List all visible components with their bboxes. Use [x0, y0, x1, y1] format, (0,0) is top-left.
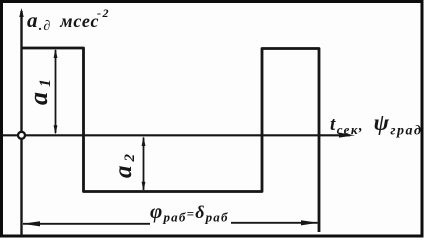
x-axis: [2, 133, 355, 138]
origin node: [18, 132, 25, 139]
dimension line bottom: [23, 220, 319, 226]
square-wave curve: [22, 48, 319, 232]
svg-text:-2: -2: [97, 6, 110, 20]
a2 measure arrow: [142, 136, 146, 191]
a1 measure arrow: [54, 49, 58, 135]
label a1: [24, 74, 54, 105]
label a2: [110, 150, 138, 178]
y-axis: [19, 8, 23, 236]
